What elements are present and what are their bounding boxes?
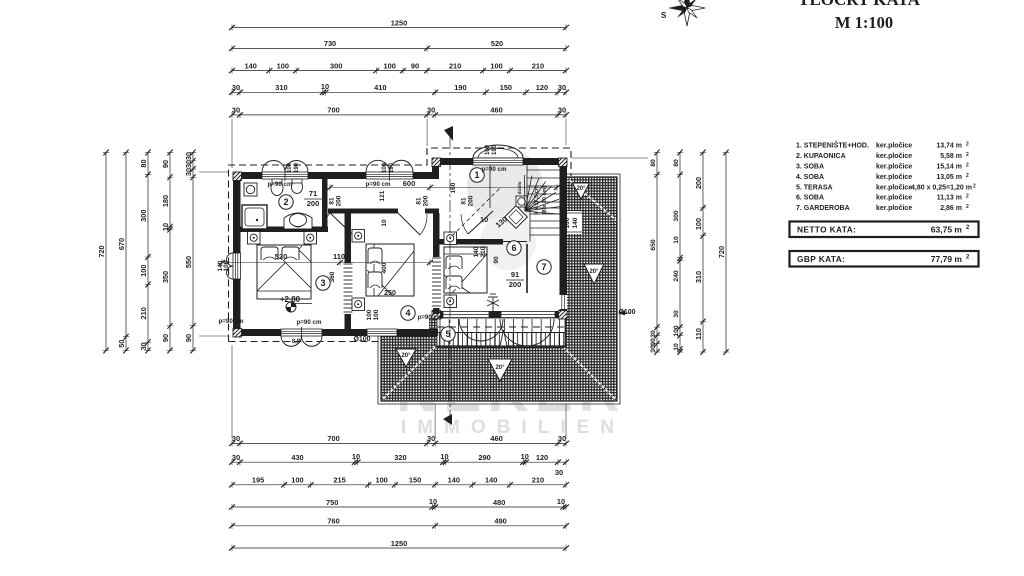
svg-text:430: 430 (291, 453, 303, 462)
stair direction door leaf (468, 211, 493, 234)
NETTO KATA box (790, 222, 979, 238)
svg-text:300: 300 (139, 210, 148, 222)
dimension line top 730/520 (229, 39, 569, 51)
svg-text:190: 190 (294, 162, 300, 173)
bed room 6 (444, 247, 487, 293)
svg-text:80: 80 (139, 159, 148, 167)
svg-text:30: 30 (184, 152, 193, 160)
svg-text:4,80 x 0,25=1,20 m: 4,80 x 0,25=1,20 m (911, 184, 972, 191)
room 7 label (537, 260, 551, 274)
svg-text:320: 320 (394, 453, 406, 462)
svg-text:10: 10 (673, 236, 680, 244)
svg-text:6: 6 (511, 243, 516, 253)
bathroom shower (242, 205, 267, 229)
window stair block bump (473, 145, 523, 158)
svg-text:30: 30 (558, 83, 566, 92)
outer wall top (left part) (233, 172, 438, 179)
svg-text:(8 x 30 cm): (8 x 30 cm) (542, 186, 548, 215)
svg-text:2: 2 (966, 204, 969, 210)
opening bottom wall 2 (367, 329, 397, 336)
svg-text:30: 30 (427, 434, 435, 443)
svg-text:310: 310 (694, 271, 703, 283)
svg-text:ker.pločice: ker.pločice (876, 184, 912, 191)
section cut line (449, 137, 451, 420)
svg-text:190: 190 (389, 162, 395, 173)
dimension line left col3 (139, 150, 151, 354)
svg-text:140: 140 (245, 61, 257, 70)
svg-text:20°: 20° (576, 186, 586, 192)
svg-text:81: 81 (461, 197, 468, 205)
svg-text:215: 215 (333, 476, 345, 485)
svg-text:200: 200 (307, 199, 320, 208)
svg-text:10: 10 (673, 343, 680, 351)
svg-text:200: 200 (468, 195, 475, 206)
window notch right wall (565, 211, 582, 234)
svg-text:190: 190 (454, 83, 466, 92)
svg-text:20°: 20° (495, 365, 505, 371)
svg-text:30: 30 (558, 434, 566, 443)
nightstands room 6 (444, 232, 457, 245)
bed room 3 (257, 245, 311, 299)
svg-text:M 1:100: M 1:100 (835, 13, 893, 32)
svg-text:120: 120 (536, 83, 548, 92)
svg-text:460: 460 (490, 106, 502, 115)
dimension line top row5 (229, 106, 569, 118)
interior wall room6|room7 (526, 244, 528, 293)
svg-text:ker.pločice: ker.pločice (876, 195, 912, 202)
svg-text:5,58 m: 5,58 m (940, 153, 962, 160)
roof slope marker 20 deg top right (573, 183, 590, 199)
svg-text:180: 180 (161, 195, 170, 207)
pocket door room4|room6 (432, 258, 441, 306)
svg-text:30: 30 (184, 160, 193, 168)
svg-text:GBP KATA:: GBP KATA: (797, 254, 845, 264)
svg-text:30: 30 (139, 342, 148, 350)
room 6 label (507, 241, 521, 255)
svg-text:81: 81 (329, 197, 336, 205)
stair WC square (516, 196, 527, 207)
svg-text:200: 200 (509, 280, 522, 289)
svg-text:13,05 m: 13,05 m (936, 174, 962, 181)
svg-text:30: 30 (427, 106, 435, 115)
plant symbol (487, 294, 499, 311)
dimension line right col1 (650, 150, 660, 356)
room 4 label (401, 306, 415, 320)
svg-text:210: 210 (532, 61, 544, 70)
svg-text:80: 80 (650, 159, 657, 167)
section arrow top (444, 126, 453, 141)
svg-text:100: 100 (287, 162, 293, 173)
roof slope marker 20 deg bottom left (396, 349, 416, 367)
dimension line bottom row3 (229, 476, 569, 488)
section arrow bottom (443, 414, 452, 425)
svg-text:140: 140 (572, 217, 579, 228)
roof slope marker 20 deg bottom centre (488, 359, 512, 381)
svg-text:71: 71 (309, 189, 317, 198)
svg-text:10: 10 (440, 452, 448, 461)
roof hip line bottom-right (564, 348, 616, 400)
svg-text:81: 81 (416, 197, 423, 205)
svg-text:20°: 20° (401, 353, 411, 359)
outer wall bottom (right part): glazed doors (432, 311, 567, 318)
svg-text:1: 1 (474, 170, 479, 180)
bathroom vanity basin (284, 213, 312, 229)
svg-text:ker.pločice: ker.pločice (876, 153, 912, 160)
svg-text:550: 550 (184, 256, 193, 268)
svg-text:90: 90 (161, 334, 170, 342)
svg-text:ker.pločice: ker.pločice (876, 143, 912, 150)
svg-text:100: 100 (673, 325, 680, 337)
svg-text:300: 300 (330, 61, 342, 70)
svg-text:5. TERASA: 5. TERASA (796, 184, 833, 191)
outer wall left (233, 172, 241, 336)
svg-text:p=90 cm: p=90 cm (482, 166, 507, 173)
roof hip line bottom-left (382, 346, 436, 400)
interior dimension line (222, 262, 430, 264)
svg-text:2: 2 (966, 142, 969, 148)
svg-text:30: 30 (558, 106, 566, 115)
bed room 4 (366, 244, 414, 296)
room4 door leaf (398, 213, 420, 235)
svg-text:210: 210 (480, 246, 487, 257)
svg-text:600: 600 (403, 179, 416, 188)
svg-text:91: 91 (511, 270, 519, 279)
svg-text:160: 160 (450, 182, 457, 193)
fraction line 71/200 (304, 198, 322, 200)
terrace door swing arcs (459, 319, 503, 341)
svg-text:30: 30 (232, 83, 240, 92)
room 3 label (316, 276, 330, 290)
svg-text:100: 100 (291, 476, 303, 485)
svg-text:480: 480 (493, 498, 505, 507)
dimension line right col3 (694, 150, 706, 356)
svg-text:10: 10 (557, 497, 565, 506)
svg-text:13,74 m: 13,74 m (936, 143, 962, 150)
dimension line top 1250 (229, 18, 569, 30)
bathroom fan symbol (244, 183, 257, 196)
svg-text:140: 140 (485, 476, 497, 485)
svg-text:7: 7 (541, 262, 546, 272)
svg-text:63,75 m: 63,75 m (931, 225, 963, 235)
svg-text:6. SOBA: 6. SOBA (796, 195, 824, 202)
svg-text:400: 400 (381, 262, 388, 273)
svg-text:10: 10 (521, 452, 529, 461)
svg-text:4: 4 (405, 308, 410, 318)
svg-text:p=90 cm: p=90 cm (297, 319, 322, 326)
svg-text:p=90 cm: p=90 cm (268, 181, 293, 188)
svg-text:7. GARDEROBA: 7. GARDEROBA (796, 205, 850, 212)
svg-text:1250: 1250 (391, 539, 407, 548)
svg-text:150: 150 (500, 83, 512, 92)
svg-text:2: 2 (966, 162, 969, 168)
dimension line bottom row5 (229, 517, 569, 529)
svg-text:110: 110 (694, 328, 703, 340)
svg-text:100: 100 (485, 144, 491, 155)
svg-text:140: 140 (448, 476, 460, 485)
roof hip line top-right (568, 179, 616, 220)
svg-text:2: 2 (283, 197, 288, 207)
extension lines (199, 119, 648, 439)
svg-text:200: 200 (694, 177, 703, 189)
interior wall room6 top (439, 239, 503, 245)
svg-text:100: 100 (375, 476, 387, 485)
svg-text:121: 121 (379, 190, 386, 201)
level marker +2,80 (286, 302, 296, 312)
svg-text:10: 10 (429, 497, 437, 506)
svg-text:195: 195 (252, 476, 264, 485)
grey watermark disc behind staircase (467, 148, 543, 224)
svg-text:100: 100 (382, 162, 388, 173)
svg-text:210: 210 (532, 476, 544, 485)
svg-text:110: 110 (333, 252, 345, 261)
svg-text:30: 30 (555, 468, 563, 477)
svg-text:210: 210 (449, 61, 461, 70)
svg-text:2. KUPAONICA: 2. KUPAONICA (796, 153, 846, 160)
svg-text:10: 10 (480, 215, 488, 224)
dimension line bottom row1 (229, 434, 569, 446)
svg-text:700: 700 (327, 106, 339, 115)
svg-text:NETTO KATA:: NETTO KATA: (797, 225, 856, 235)
roof outer offset outline (378, 174, 620, 404)
door opening right wall to roof (560, 295, 568, 309)
hall door arc (330, 213, 352, 234)
svg-text:100: 100 (383, 61, 395, 70)
svg-text:30: 30 (650, 330, 657, 338)
room 5 label (441, 327, 455, 341)
room 1 label (470, 168, 484, 182)
svg-text:2: 2 (966, 194, 969, 200)
svg-text:150: 150 (409, 476, 421, 485)
svg-text:2: 2 (966, 173, 969, 179)
svg-text:750: 750 (326, 498, 338, 507)
svg-text:720: 720 (717, 246, 726, 258)
corridor dimension line 600 (330, 187, 557, 189)
nightstands room 3 (248, 232, 261, 245)
hatch block left of terrace (429, 318, 437, 336)
svg-text:290: 290 (478, 453, 490, 462)
svg-text:250: 250 (384, 290, 396, 297)
svg-text:10: 10 (381, 219, 388, 227)
GBP KATA box (790, 251, 979, 267)
svg-text:90: 90 (184, 334, 193, 342)
bathroom toilet (271, 181, 283, 196)
dimension line bottom row2 (229, 453, 569, 465)
dimension line right col4 (717, 150, 729, 356)
svg-text:30: 30 (232, 434, 240, 443)
svg-text:TLOCRT KATA: TLOCRT KATA (798, 0, 920, 9)
svg-text:10: 10 (352, 452, 360, 461)
svg-text:ker.pločice: ker.pločice (876, 174, 912, 181)
stair diamond (shower) (505, 206, 528, 229)
compass rose (669, 0, 705, 26)
svg-text:30: 30 (673, 310, 680, 318)
staircase room 1 (452, 165, 560, 242)
interior wall bathroom right (322, 179, 328, 232)
svg-text:ker.pločice: ker.pločice (876, 163, 912, 170)
svg-text:460: 460 (490, 434, 502, 443)
interior wall room4|room6 (433, 213, 440, 257)
svg-text:90: 90 (493, 256, 500, 264)
svg-text:490: 490 (494, 517, 506, 526)
svg-text:1. STEPENIŠTE+HOD.: 1. STEPENIŠTE+HOD. (796, 141, 869, 150)
svg-text:200: 200 (336, 195, 343, 206)
svg-text:50: 50 (117, 339, 126, 347)
svg-text:100: 100 (277, 61, 289, 70)
svg-text:520: 520 (491, 39, 503, 48)
svg-text:520: 520 (275, 252, 288, 261)
outer wall bottom (left part) (233, 329, 438, 336)
dimension line bottom row4 (229, 498, 569, 510)
svg-text:650: 650 (650, 239, 657, 251)
interior wall hall bottom / room4 top (328, 209, 398, 214)
svg-text:80: 80 (673, 159, 680, 167)
terrace room 5 floor (437, 318, 565, 347)
dimension line bottom row6 (229, 539, 569, 551)
svg-text:30: 30 (184, 168, 193, 176)
svg-text:100: 100 (373, 309, 380, 320)
svg-text:77,79 m: 77,79 m (931, 254, 963, 264)
outer wall right (560, 158, 568, 318)
svg-text:30: 30 (232, 106, 240, 115)
svg-text:240: 240 (673, 270, 680, 282)
svg-text:310: 310 (275, 83, 287, 92)
nightstands room 4 (352, 230, 365, 243)
svg-text:360: 360 (329, 271, 336, 282)
svg-text:720: 720 (97, 245, 106, 257)
svg-text:15,14 m: 15,14 m (936, 163, 962, 170)
svg-text:410: 410 (374, 83, 386, 92)
svg-text:760: 760 (327, 517, 339, 526)
svg-text:4. SOBA: 4. SOBA (796, 174, 824, 181)
svg-text:10: 10 (161, 223, 170, 231)
dimension line top row3 (229, 61, 569, 73)
svg-text:90: 90 (161, 160, 170, 168)
svg-text:30: 30 (650, 345, 657, 353)
svg-text:S: S (661, 11, 667, 20)
svg-text:100: 100 (694, 218, 703, 230)
interior wall room3|room4 (345, 211, 352, 263)
legend room list (796, 141, 976, 213)
svg-text:90: 90 (650, 338, 657, 346)
svg-text:ker.pločice: ker.pločice (876, 205, 912, 212)
roof slope marker 20 deg right strip (584, 264, 604, 284)
outer wall top (stair block) (432, 158, 567, 165)
svg-text:90: 90 (411, 61, 419, 70)
svg-text:9 x 17,5 cm: 9 x 17,5 cm (534, 185, 540, 214)
svg-text:2: 2 (966, 152, 969, 158)
svg-text:2,86 m: 2,86 m (940, 205, 962, 212)
fraction line 91/200 (506, 279, 524, 281)
svg-text:3: 3 (320, 278, 325, 288)
svg-text:p=90 cm: p=90 cm (418, 314, 443, 321)
room 2 label (279, 195, 293, 209)
svg-text:20°: 20° (589, 269, 599, 275)
svg-text:p=90 cm: p=90 cm (219, 318, 244, 325)
svg-text:120: 120 (536, 453, 548, 462)
svg-text:300: 300 (673, 210, 680, 222)
svg-text:730: 730 (324, 39, 336, 48)
svg-text:11,13 m: 11,13 m (937, 195, 962, 202)
window top wall 1 (262, 172, 308, 179)
dimension line left col4 (161, 150, 173, 354)
interior wall bathroom bottom (240, 227, 328, 233)
svg-text:10: 10 (321, 82, 329, 91)
wall corner blocks (233, 172, 242, 181)
pocket door room3|room4 (344, 264, 353, 312)
terrace railing balusters (437, 319, 565, 346)
svg-text:100: 100 (490, 61, 502, 70)
dimension line left 720 (97, 150, 109, 354)
svg-text:100: 100 (366, 309, 373, 320)
terrace centre post (500, 330, 507, 346)
window left wall (233, 253, 241, 279)
svg-text:350: 350 (161, 271, 170, 283)
dimension line left 670/50 (117, 150, 129, 354)
svg-text:3. SOBA: 3. SOBA (796, 163, 824, 170)
svg-text:700: 700 (327, 434, 339, 443)
bathroom bidet (292, 181, 303, 194)
svg-text:200: 200 (423, 195, 430, 206)
svg-text:190: 190 (492, 144, 498, 155)
dimension line left col5 (184, 150, 196, 354)
svg-text:670: 670 (117, 238, 126, 250)
svg-text:dizalo: dizalo (517, 181, 522, 194)
wall connector stair block (432, 158, 439, 179)
svg-text:140: 140 (473, 246, 480, 257)
svg-text:1250: 1250 (391, 18, 407, 27)
svg-text:210: 210 (139, 307, 148, 319)
svg-text:p=90 cm: p=90 cm (366, 181, 391, 188)
window bottom wall (281, 329, 322, 336)
svg-text:100: 100 (139, 265, 148, 277)
svg-text:30: 30 (232, 453, 240, 462)
window top wall 2 (366, 172, 413, 179)
dimension line right col2 (673, 150, 683, 356)
O100 arrowhead (618, 311, 625, 316)
dashed roof overhang outline (229, 148, 572, 342)
dimension line top row4 (229, 83, 569, 95)
svg-text:2: 2 (973, 183, 976, 189)
hatched roof/terrace area (381, 177, 617, 401)
